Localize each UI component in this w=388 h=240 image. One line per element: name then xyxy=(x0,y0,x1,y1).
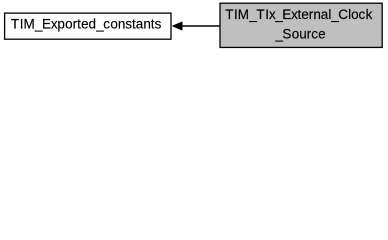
svg-text:TIM_TIx_External_Clock: TIM_TIx_External_Clock xyxy=(225,7,372,22)
svg-text:TIM_Exported_constants: TIM_Exported_constants xyxy=(11,17,162,32)
svg-text:_Source: _Source xyxy=(274,26,325,41)
arrowhead pointing left xyxy=(172,22,182,31)
label _Source line 2 xyxy=(274,26,325,41)
edge wire from current node to parent xyxy=(182,25,221,27)
label TIM_TIx_External_Clock line 1 xyxy=(225,7,372,22)
background xyxy=(0,0,388,52)
node TIM_TIx_External_Clock_Source (current group, grey fill) xyxy=(220,3,382,47)
node TIM_Exported_constants (parent group box) xyxy=(5,13,171,39)
label TIM_Exported_constants xyxy=(11,17,162,32)
